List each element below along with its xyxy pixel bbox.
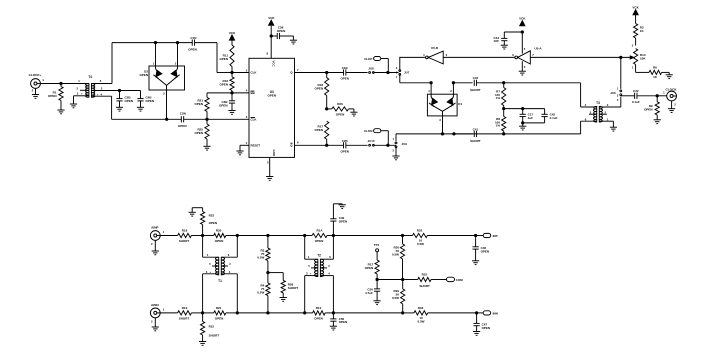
svg-text:AINP: AINP <box>151 226 158 230</box>
T1 riser right <box>236 236 238 258</box>
resistor R23 <box>202 225 204 236</box>
svg-text:3: 3 <box>306 272 308 276</box>
svg-text:3: 3 <box>632 43 634 47</box>
svg-text:OPEN: OPEN <box>482 326 491 330</box>
svg-text:OPEN: OPEN <box>219 82 228 86</box>
capacitor C17 <box>522 109 524 115</box>
svg-text:C40: C40 <box>473 76 479 80</box>
wire D1 to C40 <box>453 82 472 84</box>
svg-text:2: 2 <box>393 149 395 153</box>
svg-text:2: 2 <box>450 89 452 93</box>
resistor R18 bottom <box>178 233 192 237</box>
jumper JU10 in QB rail <box>369 144 371 146</box>
capacitor C41 <box>473 131 475 137</box>
T4 pin 2 stub <box>80 89 89 91</box>
svg-text:0.5W: 0.5W <box>257 256 264 260</box>
svg-text:SHORT: SHORT <box>288 286 299 290</box>
svg-text:7: 7 <box>532 53 534 57</box>
node CLKP junction <box>387 71 389 73</box>
T3 pin stubs right <box>599 106 621 108</box>
capacitor C4B <box>140 91 142 99</box>
wire U5-A output to R10 <box>530 56 631 58</box>
svg-text:+: + <box>209 270 211 274</box>
ground at CLOCK out connector <box>671 101 673 109</box>
ground below C2B <box>119 101 121 107</box>
ground below C4B <box>140 101 142 107</box>
resistor R28 <box>268 272 283 274</box>
capacitor C47 <box>476 313 478 324</box>
node CLKN junction <box>387 144 389 146</box>
T2 bottom pins <box>305 275 318 277</box>
svg-text:R20: R20 <box>216 229 222 233</box>
svg-text:+: + <box>310 272 312 276</box>
node CLK pin junction <box>231 71 233 73</box>
wire junction to caps C17 C42 <box>504 108 545 110</box>
svg-text:4.7uF: 4.7uF <box>365 291 373 295</box>
node diode D2 pin2 riser <box>176 41 178 43</box>
wire C40 node to T3 <box>504 82 581 84</box>
transformer T1 <box>215 257 218 275</box>
jumper JU7 vertical <box>399 70 401 72</box>
wire CLKP tag drop <box>381 58 389 60</box>
svg-text:R1A: R1A <box>316 229 323 233</box>
svg-text:CLK: CLK <box>251 71 258 75</box>
T4 pin 3 stub <box>74 95 89 97</box>
svg-text:1: 1 <box>393 137 395 141</box>
svg-text:3: 3 <box>163 91 165 95</box>
wire CLKN tag drop <box>381 130 389 132</box>
svg-text:1: 1 <box>163 230 165 234</box>
svg-text:1: 1 <box>42 78 44 82</box>
svg-text:R33: R33 <box>418 306 424 310</box>
T1 left drop to bottom rail <box>202 274 204 313</box>
svg-text:OPEN: OPEN <box>339 320 348 324</box>
T2 left drop to bottom rail <box>304 276 306 313</box>
ground right of R6 <box>662 71 670 73</box>
svg-text:R12: R12 <box>316 306 322 310</box>
svg-text:R26: R26 <box>337 102 343 106</box>
transformer T2 <box>314 259 317 276</box>
svg-text:1: 1 <box>617 87 619 91</box>
svg-text:AINN: AINN <box>151 303 159 307</box>
svg-text:1: 1 <box>246 141 248 145</box>
resistor R2 <box>635 14 637 23</box>
ground below C43 <box>503 41 505 46</box>
svg-text:3: 3 <box>607 103 609 107</box>
svg-text:OPEN: OPEN <box>481 249 490 253</box>
resistor R17 top circuit <box>325 121 329 139</box>
svg-text:5: 5 <box>308 264 310 268</box>
svg-text:OPEN: OPEN <box>194 102 203 106</box>
svg-text:3: 3 <box>396 66 398 70</box>
svg-text:0.5W: 0.5W <box>392 252 399 256</box>
ground below C46 <box>475 249 477 261</box>
svg-text:3: 3 <box>617 98 619 102</box>
capacitor C2N in lower rail <box>180 116 182 122</box>
svg-text:10K: 10K <box>640 57 646 61</box>
svg-text:2: 2 <box>151 242 153 246</box>
ground at T4 pin 3 <box>73 96 75 104</box>
svg-text:2: 2 <box>77 86 79 90</box>
svg-text:CLOCK+: CLOCK+ <box>29 73 42 77</box>
U5-A pin 2 ground <box>521 61 523 71</box>
resistor R32 <box>403 235 413 237</box>
connector J-AINP input BNC <box>150 231 160 241</box>
svg-text:JU6: JU6 <box>610 91 616 95</box>
transformer T3 <box>593 106 596 122</box>
svg-text:+: + <box>81 92 83 96</box>
ground below C50 <box>332 321 334 326</box>
svg-text:OPEN: OPEN <box>146 99 155 103</box>
transformer T4 <box>86 84 89 98</box>
svg-text:0.1uF: 0.1uF <box>632 100 640 104</box>
capacitor C1N in top rail <box>191 40 193 46</box>
capacitor C3B <box>231 93 233 101</box>
svg-text:2: 2 <box>32 89 34 93</box>
svg-text:TP1: TP1 <box>374 243 380 247</box>
svg-text:R15: R15 <box>209 324 215 328</box>
svg-text:OPEN: OPEN <box>125 99 134 103</box>
node R7 top junction <box>503 82 505 84</box>
svg-text:SHORT: SHORT <box>419 284 430 288</box>
connector tag INP <box>476 235 484 237</box>
wire JU7 bottom rail to diode D1 <box>400 82 431 84</box>
svg-text:VCK: VCK <box>632 5 639 9</box>
capacitor C42 <box>544 109 546 115</box>
ground below R25 <box>203 145 210 147</box>
capacitor C40 <box>473 80 475 86</box>
node output riser junction <box>620 56 622 58</box>
node R30 top <box>401 234 403 236</box>
svg-text:C1B: C1B <box>342 66 349 70</box>
svg-text:5: 5 <box>209 262 211 266</box>
svg-text:6: 6 <box>585 117 587 121</box>
resistor R15 <box>202 313 204 322</box>
node D1 pin3 on rail <box>441 133 443 135</box>
T4 pin 5 stub <box>92 90 120 92</box>
QB rail wire to C2D <box>327 144 344 146</box>
svg-text:6: 6 <box>329 255 331 259</box>
U3 pin 8 VCC <box>270 26 272 58</box>
node BB pin junction <box>231 92 233 94</box>
svg-text:5: 5 <box>101 87 103 91</box>
node T1 right riser top <box>236 234 238 236</box>
wire JU8 to CLKP node <box>373 72 398 74</box>
capacitor C1B in Q rail <box>327 72 344 74</box>
svg-text:T1: T1 <box>218 279 222 283</box>
svg-text:6: 6 <box>100 79 102 83</box>
node C2B junction <box>118 89 120 91</box>
svg-text:VCC: VCC <box>272 61 276 68</box>
T4 pin 4 stub and drop to lower rail <box>92 95 112 97</box>
svg-text:OPEN: OPEN <box>139 73 148 77</box>
svg-text:R23: R23 <box>209 214 215 218</box>
node C41 left <box>453 133 455 135</box>
ground below C47 <box>476 326 478 332</box>
connector J-AINN input BNC <box>150 308 160 318</box>
svg-text:OPEN: OPEN <box>340 149 349 153</box>
wire to IC pin 2 <box>232 72 249 74</box>
svg-text:4: 4 <box>229 270 231 274</box>
node R1 top junction <box>60 82 62 84</box>
svg-text:OPEN: OPEN <box>336 112 345 116</box>
svg-text:6: 6 <box>228 253 230 257</box>
wire output riser to JU6 <box>620 57 622 89</box>
T3 riser left bottom <box>580 121 582 134</box>
ground above R23 <box>192 207 202 209</box>
capacitor C2B <box>119 91 121 99</box>
svg-text:0.5W: 0.5W <box>417 320 424 324</box>
svg-text:C41: C41 <box>473 127 479 131</box>
ground at T3 pin 1 <box>612 121 614 127</box>
T1 bottom pins <box>203 273 219 275</box>
svg-text:OPEN: OPEN <box>314 87 323 91</box>
svg-text:OPEN: OPEN <box>340 77 349 81</box>
svg-text:CLKN: CLKN <box>364 129 372 133</box>
svg-text:1: 1 <box>632 65 634 69</box>
svg-text:D1: D1 <box>458 102 462 106</box>
svg-text:VCK: VCK <box>519 16 526 20</box>
wire JU7 top to U5-B input <box>400 56 426 58</box>
svg-text:4: 4 <box>246 89 248 93</box>
svg-text:SHORT: SHORT <box>179 239 190 243</box>
T2 right drop to bottom rail <box>332 276 334 313</box>
jumper JU8 in Q rail <box>369 72 371 74</box>
svg-text:Q: Q <box>290 144 293 148</box>
capacitor C43 <box>504 31 522 33</box>
svg-text:SHORT: SHORT <box>470 139 481 143</box>
svg-text:1%: 1% <box>496 124 501 128</box>
resistor R21 <box>206 93 208 98</box>
node R3 R4 junction <box>267 271 269 273</box>
wire C1N to IC jog <box>195 42 217 44</box>
capacitor C50 <box>332 313 334 319</box>
resistor R17 bottom circuit <box>376 252 378 260</box>
capacitor C38 <box>271 35 277 37</box>
resistor R16 <box>231 73 233 77</box>
T3 mid pin stubs <box>589 113 597 115</box>
node T2 right riser and C49 <box>332 234 334 236</box>
svg-text:3: 3 <box>439 118 441 122</box>
resistor R9 <box>656 96 658 102</box>
resistor R20 <box>203 235 214 237</box>
svg-text:2: 2 <box>328 264 330 268</box>
svg-text:2: 2 <box>151 319 153 323</box>
svg-text:R24: R24 <box>216 306 222 310</box>
svg-text:CLKP: CLKP <box>364 57 372 61</box>
svg-text:OPEN: OPEN <box>268 94 277 98</box>
svg-text:U5-A: U5-A <box>534 46 542 50</box>
node R29 bottom <box>402 312 404 314</box>
resistor R11 <box>230 45 234 67</box>
svg-text:T3: T3 <box>596 101 600 105</box>
node D1 pin 2 riser <box>452 82 454 84</box>
wire jog down to CLK node <box>216 43 218 73</box>
node T1 right riser bottom <box>236 312 238 314</box>
svg-text:JU8: JU8 <box>368 66 374 70</box>
svg-text:2: 2 <box>617 93 619 97</box>
svg-text:1: 1 <box>153 62 155 66</box>
svg-text:2: 2 <box>175 62 177 66</box>
wire AINP to R18B <box>160 235 177 237</box>
svg-text:1: 1 <box>396 75 398 79</box>
resistor R7 <box>503 83 505 88</box>
wire to IC pin 4 <box>232 92 249 94</box>
mid rail wire <box>377 279 403 281</box>
T2 riser right <box>332 236 334 260</box>
node C38 junction <box>270 35 272 37</box>
resistor R33 <box>403 312 414 314</box>
svg-text:R22: R22 <box>422 273 428 277</box>
resistor R24 <box>203 312 214 314</box>
T1 right drop to bottom rail <box>236 274 238 313</box>
node INN junction <box>475 312 477 314</box>
svg-text:C2D: C2D <box>342 139 349 143</box>
diode module D1 <box>430 83 432 97</box>
bottom rail T1 to R4 <box>237 312 268 314</box>
top rail wire from T4 riser to cap C1N <box>112 42 192 44</box>
svg-text:1%: 1% <box>496 96 501 100</box>
ground right of C49 <box>341 204 343 205</box>
top rail R3 to T2 <box>268 235 305 237</box>
ground right of R26 <box>353 109 355 112</box>
svg-text:OPEN: OPEN <box>48 94 57 98</box>
resistor R30 <box>402 236 404 244</box>
capacitor C36 <box>376 280 378 289</box>
node T2 right riser bottom and C50 <box>332 312 334 314</box>
wire R21 top to BB node <box>207 92 232 94</box>
svg-text:INN: INN <box>493 312 498 316</box>
svg-text:OPEN: OPEN <box>219 57 228 61</box>
wire U5-B output to U5-A input <box>443 56 515 58</box>
node mid rail R30 <box>402 278 404 280</box>
svg-text:3: 3 <box>246 115 248 119</box>
wire CLOCK+ to T4 pin 1 <box>40 83 89 85</box>
resistor R19 <box>178 311 192 315</box>
U3 pin 1 RESET <box>240 144 249 146</box>
wire AINN to R19 <box>160 312 177 314</box>
svg-text:1UF: 1UF <box>493 39 499 43</box>
ground at RESET pin <box>239 145 241 151</box>
svg-text:R6: R6 <box>653 66 657 70</box>
ground at CLOCK+ connector <box>35 88 37 94</box>
svg-text:VCK: VCK <box>268 16 275 20</box>
D2 pin 3 wire to lower rail <box>166 90 168 119</box>
svg-text:5: 5 <box>267 160 269 164</box>
svg-text:INP: INP <box>493 234 498 238</box>
svg-text:0.5W: 0.5W <box>257 291 264 295</box>
svg-text:3: 3 <box>206 270 208 274</box>
node T2 left riser bottom <box>304 312 306 314</box>
svg-text:CLK: CLK <box>251 118 258 122</box>
T2 riser left <box>304 236 306 260</box>
svg-text:GND: GND <box>272 150 276 156</box>
ground below R28 <box>280 297 287 299</box>
ground at AINN connector <box>154 318 156 327</box>
svg-text:C1N: C1N <box>190 36 196 40</box>
capacitor C22 <box>634 93 636 99</box>
wire R18B to junction <box>191 235 202 237</box>
resistor R1 <box>59 87 63 101</box>
resistor R8 <box>503 109 505 117</box>
top rail T1 to R3 <box>237 235 268 237</box>
svg-text:4: 4 <box>585 103 587 107</box>
svg-text:OPEN: OPEN <box>339 220 348 224</box>
svg-text:RESET: RESET <box>251 144 261 148</box>
svg-text:JU9: JU9 <box>402 142 408 146</box>
node INP junction <box>474 234 476 236</box>
svg-text:1uF: 1uF <box>528 116 534 120</box>
wire T4 pin5 to caps <box>120 90 141 92</box>
lower mid rail from JU9 to T3 <box>396 133 504 135</box>
U5-A pin 5 supply <box>521 32 523 54</box>
svg-text:R18: R18 <box>182 229 188 233</box>
svg-text:Q: Q <box>290 71 293 75</box>
svg-text:OPEN: OPEN <box>314 128 323 132</box>
T3 riser left top <box>580 83 582 107</box>
node R4 bottom <box>267 312 269 314</box>
ground at AINP connector <box>154 240 156 251</box>
svg-text:1: 1 <box>163 307 165 311</box>
svg-text:C2N: C2N <box>180 112 186 116</box>
svg-text:6: 6 <box>512 53 514 57</box>
svg-text:JU7: JU7 <box>404 71 410 75</box>
node C17 bottom <box>522 122 524 124</box>
svg-text:4: 4 <box>423 53 425 57</box>
svg-text:5: 5 <box>524 47 526 51</box>
node QB rail R17 junction <box>326 144 328 146</box>
connector tag INN <box>477 312 484 314</box>
svg-text:8: 8 <box>266 51 268 55</box>
svg-text:OPEN: OPEN <box>644 107 653 111</box>
wire JU6 to C22 <box>621 95 635 97</box>
svg-text:R32: R32 <box>417 228 423 232</box>
svg-text:C22: C22 <box>633 89 639 93</box>
svg-text:OPEN: OPEN <box>277 29 286 33</box>
svg-text:OPEN: OPEN <box>194 131 203 135</box>
svg-text:JU10: JU10 <box>368 139 375 143</box>
svg-text:0.5W: 0.5W <box>417 242 424 246</box>
ground below JU9 <box>392 155 399 157</box>
node R7 R8 junction <box>503 107 505 109</box>
wire JU10 to JU9 <box>373 144 396 146</box>
svg-text:SHORT: SHORT <box>209 334 220 338</box>
svg-text:2: 2 <box>229 262 231 266</box>
wire C2N to IC CLKB pin <box>184 118 249 120</box>
svg-text:0.5W: 0.5W <box>392 296 399 300</box>
node R8 bottom junction <box>503 133 505 135</box>
node C17 top <box>522 107 524 109</box>
svg-text:1: 1 <box>607 117 609 121</box>
svg-text:SHORT: SHORT <box>179 316 190 320</box>
U3 pin 5 ground <box>269 157 271 176</box>
node AINN junction <box>201 312 203 314</box>
svg-text:1: 1 <box>207 253 209 257</box>
lower rail from T4 pin4 drop to cap C2N <box>112 118 182 120</box>
resistor R26 <box>327 108 332 110</box>
svg-text:U5-B: U5-B <box>431 46 439 50</box>
svg-text:OPEN: OPEN <box>315 239 324 243</box>
svg-text:OPEN: OPEN <box>365 266 374 270</box>
ground below R1 <box>60 101 62 111</box>
U3 pin 6 QB output <box>295 144 327 146</box>
connector tag CM <box>447 277 455 281</box>
connector J-CLOCK output BNC <box>657 95 667 97</box>
ground right of C38 <box>292 36 294 40</box>
svg-text:1K: 1K <box>653 75 658 79</box>
svg-text:2: 2 <box>524 65 526 69</box>
jumper JU6 vertical <box>620 90 622 92</box>
